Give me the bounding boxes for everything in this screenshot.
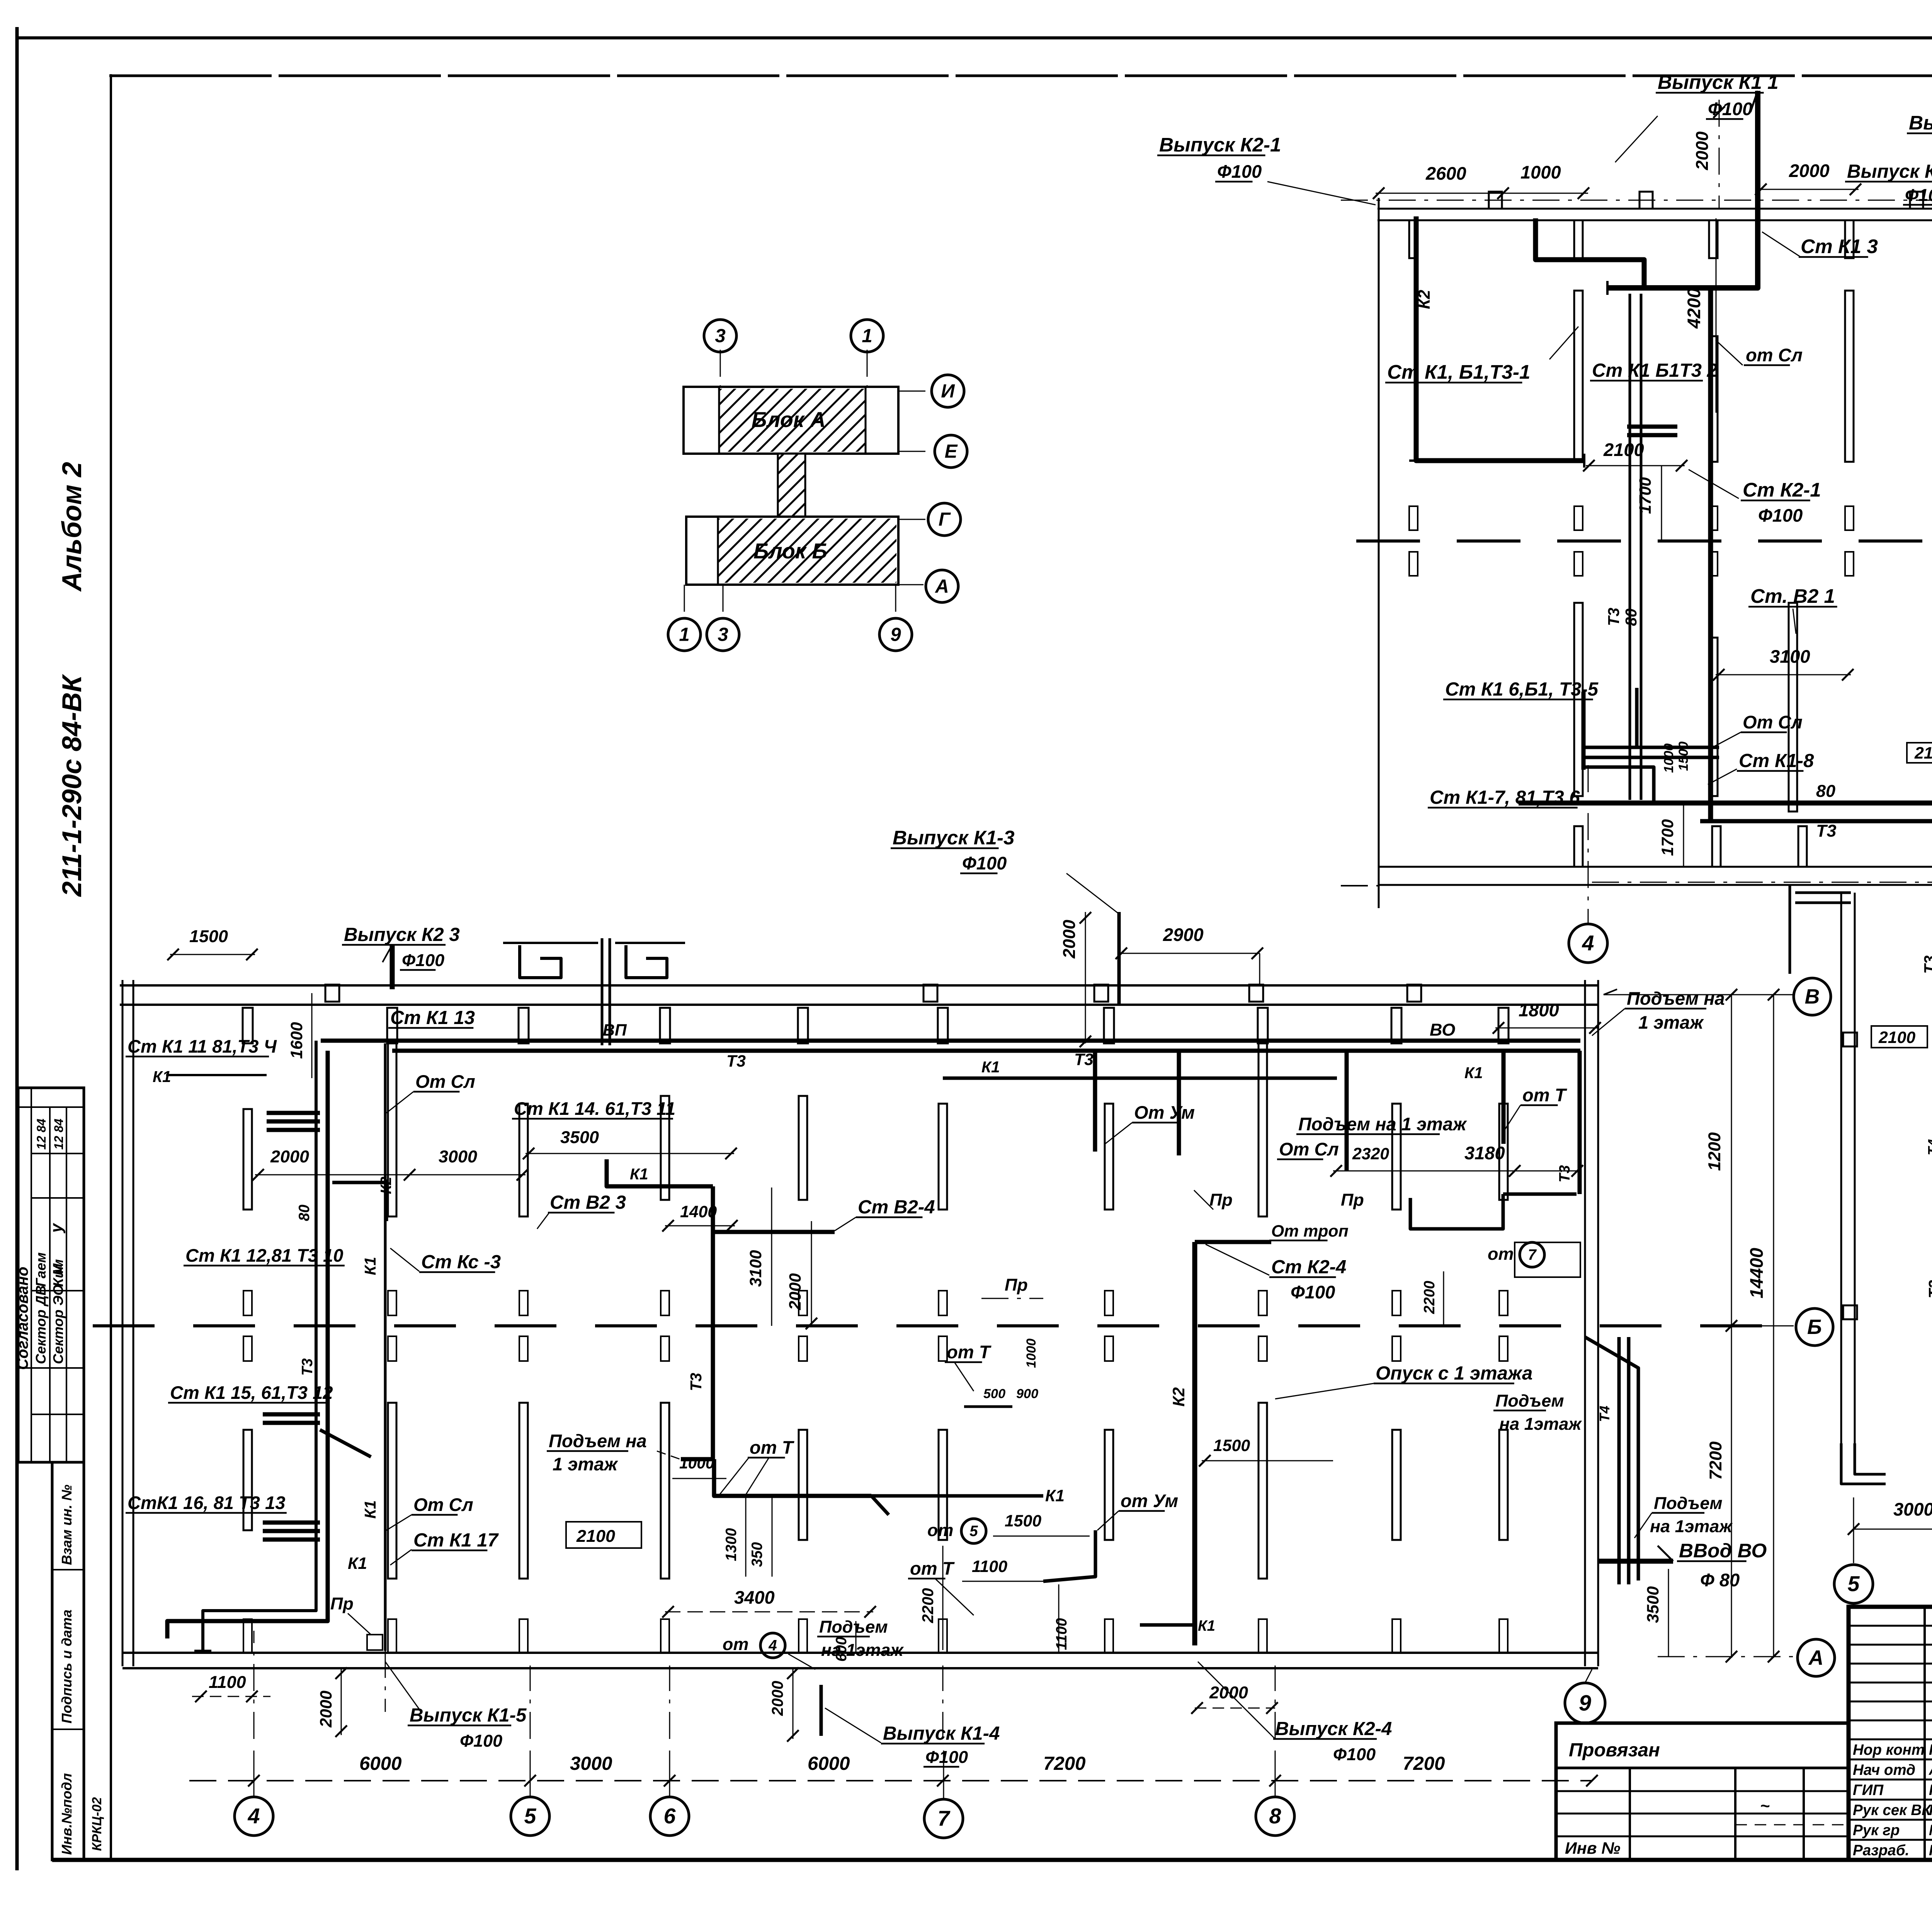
svg-text:1800: 1800	[1519, 1000, 1559, 1020]
dim vertical 2000 rotated at 4449	[1719, 100, 1720, 209]
pipe Выпуск К1-1 riser	[1607, 91, 1758, 288]
svg-text:Выпуск К1-3: Выпуск К1-3	[893, 827, 1015, 849]
svg-text:1 этаж: 1 этаж	[553, 1454, 618, 1474]
svg-text:3100: 3100	[1770, 646, 1810, 667]
dim 1600 rotated	[311, 993, 313, 1078]
svg-text:В: В	[1805, 985, 1820, 1008]
svg-text:Подпись и дата: Подпись и дата	[59, 1609, 75, 1723]
pipe К1 runs upper mid	[943, 1077, 1337, 1080]
svg-text:Ст В2-4: Ст В2-4	[858, 1196, 935, 1218]
svg-text:3000: 3000	[570, 1753, 612, 1774]
dim line 3000 6000	[1854, 1529, 1932, 1530]
svg-text:Инв.№подл: Инв.№подл	[59, 1773, 75, 1855]
svg-text:Ф100: Ф100	[1905, 185, 1932, 205]
svg-text:на 1этаж: на 1этаж	[1499, 1414, 1582, 1434]
pipe main ВП run block B	[392, 1049, 1580, 1053]
svg-text:1100: 1100	[1053, 1618, 1070, 1650]
svg-text:Пр: Пр	[330, 1594, 354, 1613]
svg-text:Калитк.: Калитк.	[1929, 1802, 1932, 1819]
svg-text:7200: 7200	[1043, 1753, 1086, 1774]
pipe ВВод ВО stub	[1598, 1559, 1673, 1564]
svg-text:От Сл: От Сл	[413, 1494, 473, 1515]
key plan grid circle Г	[928, 503, 961, 536]
svg-text:4: 4	[768, 1637, 777, 1654]
block B bottom wall	[122, 1652, 1598, 1654]
key plan block A hatch	[719, 389, 866, 452]
pipe К2-3 riser	[390, 945, 395, 989]
svg-text:Т3: Т3	[726, 1052, 746, 1070]
svg-text:К1: К1	[361, 1257, 379, 1275]
svg-text:2200: 2200	[1421, 1281, 1438, 1314]
svg-text:от Ум: от Ум	[1121, 1490, 1178, 1511]
svg-text:Т3: Т3	[1556, 1165, 1573, 1182]
svg-text:2900: 2900	[1163, 924, 1204, 945]
svg-text:Аксенова: Аксенова	[1929, 1762, 1932, 1778]
svg-text:К1: К1	[981, 1058, 1000, 1076]
svg-text:от Т: от Т	[1522, 1085, 1568, 1105]
svg-text:Т3: Т3	[1816, 821, 1836, 840]
title block signature named rows	[1849, 1739, 1932, 1740]
pipe Т3 vertical mid	[681, 1186, 713, 1459]
pipe УМ drop	[1043, 1530, 1095, 1581]
svg-text:От троп: От троп	[1271, 1222, 1349, 1240]
svg-text:9: 9	[1579, 1691, 1591, 1715]
svg-text:ВВод ВО: ВВод ВО	[1679, 1540, 1767, 1562]
block A small tabs on top wall	[1489, 192, 1502, 209]
svg-text:К1: К1	[361, 1500, 379, 1519]
block B axis Б dash line	[93, 1324, 155, 1327]
pipe К1 run mid	[607, 1159, 713, 1186]
pipe down from Т3	[714, 1459, 871, 1496]
pipe hook diag	[320, 1430, 371, 1457]
svg-text:350: 350	[749, 1542, 765, 1567]
svg-text:7200: 7200	[1706, 1441, 1725, 1480]
svg-text:Гулямова: Гулямова	[1929, 1842, 1932, 1859]
svg-text:4: 4	[1582, 931, 1594, 955]
svg-text:2100: 2100	[1914, 744, 1932, 762]
svg-text:Ст К1 14. 61,Т3 11: Ст К1 14. 61,Т3 11	[514, 1098, 675, 1119]
svg-text:Ф 80: Ф 80	[1700, 1570, 1740, 1590]
svg-text:от: от	[1488, 1244, 1514, 1264]
key plan grid circle И	[932, 375, 964, 407]
pipe T3/T4 right riser pair	[1617, 1337, 1621, 1584]
svg-text:Выпуск К1 1: Выпуск К1 1	[1658, 71, 1779, 93]
svg-text:~: ~	[1760, 1797, 1770, 1815]
svg-text:Ст К2-1: Ст К2-1	[1743, 479, 1821, 501]
block B left wall	[122, 980, 124, 1666]
svg-text:Калиткина: Калиткина	[1929, 1742, 1932, 1758]
key plan grid circle 3 bottom	[707, 618, 739, 651]
svg-text:12 84: 12 84	[52, 1119, 66, 1150]
svg-text:3400: 3400	[734, 1587, 775, 1608]
svg-text:Ст К1 Б1Т3 2: Ст К1 Б1Т3 2	[1592, 360, 1718, 381]
grid circle В	[1794, 978, 1831, 1015]
block A axis 4 circle	[1569, 924, 1607, 963]
svg-text:Инв №: Инв №	[1565, 1839, 1620, 1858]
block A axis Д dash-dot	[1592, 882, 1932, 883]
dim 2000 rotated above block B	[1085, 912, 1086, 1043]
dim 1500 left top	[170, 954, 255, 955]
svg-text:6000: 6000	[808, 1753, 850, 1774]
svg-text:Ст К2-4: Ст К2-4	[1271, 1256, 1346, 1278]
pipe К2 riser mid	[1192, 1242, 1197, 1645]
svg-text:Ст К1 6,Б1, Т3-5: Ст К1 6,Б1, Т3-5	[1445, 679, 1599, 700]
svg-text:12 84: 12 84	[34, 1119, 48, 1150]
svg-text:Б: Б	[1807, 1316, 1822, 1339]
key plan grid circle 9 bottom	[879, 618, 912, 651]
pipe right jog cluster	[1585, 1337, 1638, 1581]
block A top exterior wall	[1378, 208, 1932, 210]
svg-text:Блок Б: Блок Б	[753, 539, 827, 563]
svg-text:Опуск с 1 этажа: Опуск с 1 этажа	[1376, 1363, 1532, 1384]
svg-text:Ф100: Ф100	[962, 853, 1007, 873]
pipe К1 top-left run	[166, 1074, 267, 1076]
svg-text:Подъем: Подъем	[819, 1617, 888, 1637]
corridor left wall	[1840, 893, 1842, 1443]
block B pilasters under top wall	[243, 1008, 253, 1043]
svg-text:2000: 2000	[1692, 131, 1712, 170]
pipe Выпуск К1-4 riser	[820, 1685, 823, 1736]
svg-text:500: 500	[983, 1387, 1005, 1401]
pipe stub Ст К1-11	[267, 1111, 320, 1115]
corridor left wall upper stub	[1789, 885, 1791, 974]
svg-text:7200: 7200	[1403, 1753, 1445, 1774]
svg-text:3: 3	[715, 325, 725, 347]
svg-text:А: А	[1808, 1647, 1824, 1669]
svg-text:1000: 1000	[1662, 743, 1676, 773]
pipe diagonal to 3400 line	[871, 1496, 889, 1515]
boxed 2100 block B	[566, 1522, 641, 1548]
svg-text:Подъем на: Подъем на	[1627, 988, 1725, 1009]
svg-text:Разраб.: Разраб.	[1853, 1842, 1909, 1859]
svg-text:МухамеЗакинова: МухамеЗакинова	[1929, 1822, 1932, 1839]
svg-text:Ст Кс -3: Ст Кс -3	[421, 1251, 501, 1273]
pipe stub Ст К1-15	[263, 1412, 320, 1417]
svg-text:1: 1	[679, 624, 689, 645]
block B right wall	[1584, 980, 1586, 1666]
svg-text:Выпуск К2-4: Выпуск К2-4	[1275, 1718, 1392, 1739]
svg-text:у: у	[47, 1223, 66, 1233]
svg-text:Выпуск К2-1: Выпуск К2-1	[1159, 134, 1281, 156]
svg-text:Провязан: Провязан	[1569, 1739, 1660, 1761]
dim 1800	[1495, 1028, 1598, 1029]
svg-text:1000: 1000	[679, 1454, 714, 1472]
corridor left wall bottom L	[1841, 1443, 1886, 1484]
block B pilasters above bottom wall	[243, 1619, 252, 1653]
block A mid interior wall strips	[1574, 291, 1583, 462]
svg-text:К1: К1	[153, 1068, 171, 1085]
svg-text:3180: 3180	[1464, 1143, 1505, 1163]
svg-text:3500: 3500	[1644, 1586, 1662, 1623]
svg-text:1: 1	[862, 325, 872, 347]
svg-text:2000: 2000	[786, 1273, 804, 1310]
key plan grid circle 1 bottom	[668, 618, 701, 651]
svg-text:900: 900	[1016, 1387, 1038, 1401]
axis Е extension dash-dots	[1341, 885, 1379, 886]
dim 1700 rotated left	[1661, 466, 1662, 541]
pipe СтВ2-4 horizontal	[713, 1230, 835, 1234]
dim 3500 rotated near ВВод	[1668, 1569, 1669, 1657]
svg-text:2320: 2320	[1352, 1145, 1389, 1163]
key plan grid circle А	[926, 570, 958, 602]
pipe К1 riser long	[384, 1043, 387, 1651]
title block outline	[1849, 1607, 1932, 1860]
svg-text:Сектор ДВ: Сектор ДВ	[33, 1285, 49, 1364]
pipe hook at 2510	[964, 1405, 1012, 1408]
svg-text:Выпуск К2 3: Выпуск К2 3	[344, 924, 460, 945]
grid circle А	[1798, 1639, 1835, 1676]
svg-text:Ф100: Ф100	[460, 1731, 502, 1751]
svg-text:Альбом 2: Альбом 2	[56, 462, 87, 592]
svg-text:1100: 1100	[209, 1672, 246, 1692]
svg-text:Т3: Т3	[299, 1358, 316, 1376]
svg-text:5: 5	[1848, 1572, 1860, 1596]
key plan block B outline	[686, 517, 898, 585]
svg-text:Т4: Т4	[1925, 1139, 1932, 1155]
svg-text:1700: 1700	[1636, 477, 1655, 514]
svg-text:К1: К1	[1045, 1487, 1065, 1505]
svg-text:от Т: от Т	[910, 1558, 955, 1579]
dim 1100 rotated bottom	[1058, 1584, 1060, 1654]
block A lower interior wall strips	[1574, 603, 1583, 796]
svg-text:2600: 2600	[1425, 163, 1466, 184]
svg-text:Блок А: Блок А	[752, 408, 826, 432]
dim 2000 rotated mid	[811, 1221, 812, 1326]
vertical dim lines 1200/14400	[1731, 995, 1732, 1658]
svg-text:От Сл: От Сл	[415, 1071, 475, 1092]
svg-text:Подъем: Подъем	[1495, 1391, 1564, 1410]
sheet outer border top	[15, 36, 1932, 39]
svg-text:от: от	[723, 1634, 748, 1654]
svg-text:Рук сек ВК: Рук сек ВК	[1853, 1802, 1932, 1819]
inner frame top	[109, 75, 1932, 77]
svg-text:КРКЦ-02: КРКЦ-02	[90, 1797, 104, 1851]
svg-text:К1: К1	[630, 1165, 648, 1183]
svg-text:Выпуск К2-2: Выпуск К2-2	[1847, 161, 1932, 182]
svg-text:Ф100: Ф100	[1291, 1282, 1335, 1302]
title block signature grid rows upper	[1849, 1625, 1932, 1627]
corridor pilaster squares	[1843, 1033, 1857, 1046]
dim 2200 rotated right	[1443, 1271, 1444, 1326]
svg-text:Т3: Т3	[1074, 1050, 1094, 1069]
svg-text:Ф100: Ф100	[1217, 161, 1262, 182]
block B entrance porch top line	[503, 942, 598, 944]
dim line above top wall	[1376, 193, 1588, 194]
svg-text:211-1-290с 84-ВК: 211-1-290с 84-ВК	[56, 674, 87, 897]
pipe T3 drop right	[1578, 1051, 1582, 1194]
svg-text:Г: Г	[939, 509, 951, 530]
svg-text:80: 80	[1622, 608, 1640, 626]
dim 3100 rotated	[771, 1188, 772, 1326]
svg-text:8: 8	[1269, 1804, 1281, 1828]
svg-text:Ст К1 17: Ст К1 17	[413, 1529, 499, 1551]
pipe T3 main run	[1700, 819, 1932, 823]
key plan grid circle 1 top	[851, 320, 883, 352]
svg-text:1 этаж: 1 этаж	[1638, 1012, 1704, 1033]
inner frame bottom (thick)	[52, 1858, 1932, 1862]
svg-text:2000: 2000	[270, 1147, 309, 1166]
svg-text:Подъем на: Подъем на	[549, 1431, 647, 1451]
svg-text:3000: 3000	[1893, 1499, 1932, 1519]
svg-text:3100: 3100	[747, 1250, 765, 1287]
block A left wall	[1378, 198, 1380, 908]
dim line to В circle	[1604, 994, 1794, 995]
svg-text:Ст К1 12,81 Т3 10: Ст К1 12,81 Т3 10	[185, 1245, 343, 1266]
svg-text:1600: 1600	[287, 1022, 306, 1059]
pipe К1 horizontal lower mid	[714, 1494, 1043, 1498]
block B top exterior wall	[120, 984, 1598, 987]
pipe cluster near Ст К1-6	[1582, 692, 1586, 770]
pipe Выпуск К1-3 riser above wall	[1117, 912, 1121, 1005]
svg-text:От Сл: От Сл	[1743, 712, 1803, 732]
svg-text:Пр: Пр	[1209, 1190, 1233, 1210]
key plan block B hatch	[718, 519, 896, 583]
svg-text:Согласовано: Согласовано	[14, 1267, 31, 1370]
svg-text:Ф100: Ф100	[925, 1747, 968, 1767]
svg-text:Ст К1, Б1,Т3-1: Ст К1, Б1,Т3-1	[1387, 361, 1531, 383]
pipe К1 right cluster	[1410, 1194, 1503, 1229]
svg-text:Ст К1-8: Ст К1-8	[1739, 750, 1814, 771]
svg-text:К2: К2	[1415, 290, 1434, 309]
svg-text:Ст К1 11 81,Т3 Ч: Ст К1 11 81,Т3 Ч	[128, 1036, 277, 1057]
svg-text:Т4: Т4	[1597, 1406, 1612, 1422]
dim 2000 rotated bottom-left	[341, 1669, 342, 1735]
left auxiliary table Провязан	[1556, 1723, 1849, 1860]
pipe Ст К1 3 drop	[1708, 288, 1713, 821]
svg-text:1700: 1700	[1658, 819, 1677, 856]
svg-text:Ф100: Ф100	[402, 950, 444, 970]
svg-text:1500: 1500	[1005, 1512, 1041, 1530]
block B lower interior wall strips	[243, 1430, 252, 1530]
svg-text:Подъем на 1 этаж: Подъем на 1 этаж	[1298, 1114, 1467, 1134]
svg-text:7: 7	[938, 1807, 951, 1831]
svg-text:Гаем: Гаем	[33, 1252, 49, 1287]
svg-text:ВО: ВО	[1430, 1020, 1455, 1040]
svg-text:3000: 3000	[439, 1147, 477, 1166]
pipe К1 lower segment 2	[1140, 1623, 1194, 1627]
svg-text:СтК1 16, 81 Т3 13: СтК1 16, 81 Т3 13	[128, 1492, 285, 1513]
key plan axis leaders	[720, 350, 721, 387]
svg-text:от Т: от Т	[750, 1437, 795, 1458]
svg-text:Сектор ЭО: Сектор ЭО	[50, 1284, 66, 1364]
svg-text:И: И	[941, 381, 955, 402]
dim 4200 rotated	[1716, 218, 1717, 413]
pipe B0 main run	[1519, 801, 1932, 806]
svg-text:От Сл: От Сл	[1279, 1139, 1339, 1159]
pipe К1/К2 vertical pair left	[203, 1041, 316, 1651]
svg-text:7: 7	[1528, 1247, 1537, 1263]
svg-text:Т3: Т3	[1921, 955, 1932, 974]
dim 2200 rotated bottom mid	[942, 1546, 944, 1650]
svg-text:Подъем: Подъем	[1654, 1493, 1723, 1513]
block B interior wall strips row1	[243, 1109, 252, 1210]
svg-text:Т3: Т3	[1605, 607, 1622, 626]
block A axis Ц dash-dot line	[1341, 200, 1932, 201]
svg-text:Т3: Т3	[687, 1373, 705, 1391]
svg-text:м: м	[47, 1263, 66, 1275]
svg-text:Взам ин. №: Взам ин. №	[59, 1485, 75, 1565]
svg-text:2100: 2100	[1878, 1028, 1915, 1047]
svg-text:Выпуск К1-4: Выпуск К1-4	[883, 1723, 1000, 1744]
block B axis-Б crossing strips	[243, 1291, 252, 1315]
svg-text:Нач отд: Нач отд	[1853, 1762, 1915, 1778]
svg-text:на 1этаж: на 1этаж	[1650, 1516, 1733, 1536]
key plan grid circle 3 top	[704, 320, 736, 352]
block A pilasters under top wall	[1409, 220, 1418, 258]
svg-text:14400: 14400	[1746, 1248, 1767, 1298]
block B axis circle 9	[1565, 1683, 1605, 1723]
porch riser pipes	[601, 938, 604, 1045]
svg-text:А: А	[934, 576, 949, 597]
porch hook symbol left	[520, 945, 561, 978]
svg-text:ГИП: ГИП	[1853, 1782, 1884, 1798]
axis А dash-dot	[1658, 1656, 1796, 1657]
svg-text:1000: 1000	[1520, 162, 1561, 182]
pipe main T3 run block B	[321, 1039, 1580, 1043]
boxed level mark 2100	[1907, 743, 1932, 763]
svg-text:1500: 1500	[1676, 742, 1691, 771]
svg-text:от Сл: от Сл	[1746, 345, 1803, 365]
block A pilasters above bottom wall	[1574, 826, 1583, 867]
svg-text:Т3: Т3	[1925, 1280, 1932, 1298]
svg-text:2100: 2100	[1603, 439, 1644, 460]
pipe stub Ст К1-16	[263, 1521, 320, 1525]
title block signature grid verticals	[1923, 1607, 1926, 1860]
dim 2000 at 4690	[1758, 189, 1859, 190]
block B tabs on top wall	[325, 985, 339, 1002]
svg-text:2000: 2000	[1059, 920, 1079, 959]
svg-text:от Т: от Т	[947, 1342, 992, 1362]
key plan connector	[778, 454, 805, 517]
boxed 2100 in corridor	[1871, 1026, 1927, 1048]
svg-text:1100: 1100	[972, 1557, 1007, 1576]
svg-text:Ст В2 3: Ст В2 3	[550, 1192, 626, 1213]
svg-text:4: 4	[248, 1804, 260, 1828]
svg-text:2000: 2000	[1789, 160, 1830, 181]
svg-text:Ф100: Ф100	[1758, 505, 1803, 526]
svg-text:9: 9	[890, 624, 901, 645]
svg-text:Нор конт: Нор конт	[1853, 1742, 1925, 1758]
svg-text:Выпуск К1-2: Выпуск К1-2	[1909, 112, 1932, 134]
svg-text:1300: 1300	[723, 1528, 740, 1561]
svg-text:2100: 2100	[576, 1526, 615, 1546]
block A axis-Ж crossing strips	[1409, 506, 1418, 530]
svg-text:6000: 6000	[359, 1753, 402, 1774]
svg-text:3: 3	[718, 624, 728, 645]
dim 1300 350 rotated	[745, 1496, 747, 1577]
svg-text:Ф100: Ф100	[1333, 1744, 1376, 1764]
svg-text:Выпуск К1-5: Выпуск К1-5	[410, 1705, 527, 1726]
porch hook symbol right	[626, 945, 667, 978]
svg-text:К1: К1	[348, 1554, 367, 1573]
block A axis Ж dash line	[1356, 539, 1420, 543]
grid circle Б	[1796, 1308, 1833, 1346]
block B axis circles 4-8	[235, 1797, 273, 1836]
svg-text:5: 5	[524, 1804, 537, 1828]
svg-text:Ст. В2 1: Ст. В2 1	[1750, 585, 1835, 607]
svg-text:от: от	[927, 1520, 953, 1540]
left stamp lower (Подпись и дата)	[52, 1462, 84, 1860]
svg-text:Пр: Пр	[1341, 1190, 1364, 1210]
svg-text:2200: 2200	[919, 1588, 937, 1623]
svg-text:Ф100: Ф100	[1708, 99, 1752, 119]
pipe Ст К1 Б1Т3-2 stub	[1627, 425, 1677, 429]
pipe Пр branch	[1177, 1051, 1181, 1155]
svg-text:2000: 2000	[769, 1681, 786, 1716]
block A bottom exterior wall	[1379, 866, 1932, 868]
svg-text:5: 5	[969, 1523, 978, 1540]
svg-text:1200: 1200	[1704, 1132, 1724, 1171]
